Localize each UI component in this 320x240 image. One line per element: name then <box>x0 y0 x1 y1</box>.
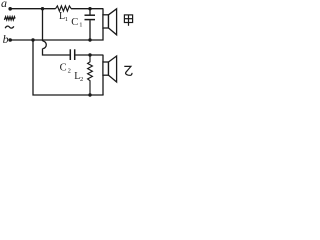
node junction (33,40) <box>31 38 34 41</box>
wire b to node (33,40) <box>12 39 34 41</box>
svg-text:C: C <box>60 63 67 74</box>
terminal b <box>8 38 12 42</box>
wire speaker 1 bottom <box>90 28 103 40</box>
wire node A down <box>42 9 44 41</box>
svg-text:1: 1 <box>65 16 68 23</box>
label 乙 <box>124 66 132 75</box>
wire speaker 2 top <box>102 55 104 62</box>
svg-text:2: 2 <box>68 68 71 75</box>
bottom rail wire <box>33 40 104 95</box>
capacitor C1 <box>85 9 96 40</box>
svg-text:C: C <box>71 17 78 28</box>
node junction (90,40) <box>88 38 91 41</box>
speaker 甲 <box>103 9 117 35</box>
wire a to node A <box>12 8 56 10</box>
label 甲 <box>124 15 132 26</box>
node B junction (90,8.7) <box>88 7 91 10</box>
wire speaker 2 bottom <box>102 75 104 95</box>
wire hop over b wire <box>43 41 47 49</box>
svg-text:a: a <box>1 0 7 10</box>
speaker 乙 <box>103 56 117 82</box>
inductor L2 <box>88 55 93 95</box>
node A junction (42.5,8.7) <box>41 7 44 10</box>
wire b rail to C1 bottom <box>33 39 90 41</box>
svg-text:1: 1 <box>79 22 82 29</box>
source tilde <box>5 26 14 28</box>
wire hop to C2 branch <box>43 49 70 55</box>
inductor L1 <box>56 6 72 11</box>
wire speaker 1 top <box>102 9 104 15</box>
wire L1 to node B <box>71 8 103 10</box>
node junction (90,95) <box>88 93 91 96</box>
svg-text:b: b <box>3 32 9 46</box>
terminal a <box>8 7 12 11</box>
node junction (90,55) <box>88 53 91 56</box>
capacitor C2 <box>70 49 103 60</box>
source squiggle <box>4 17 15 20</box>
svg-text:2: 2 <box>80 76 83 83</box>
